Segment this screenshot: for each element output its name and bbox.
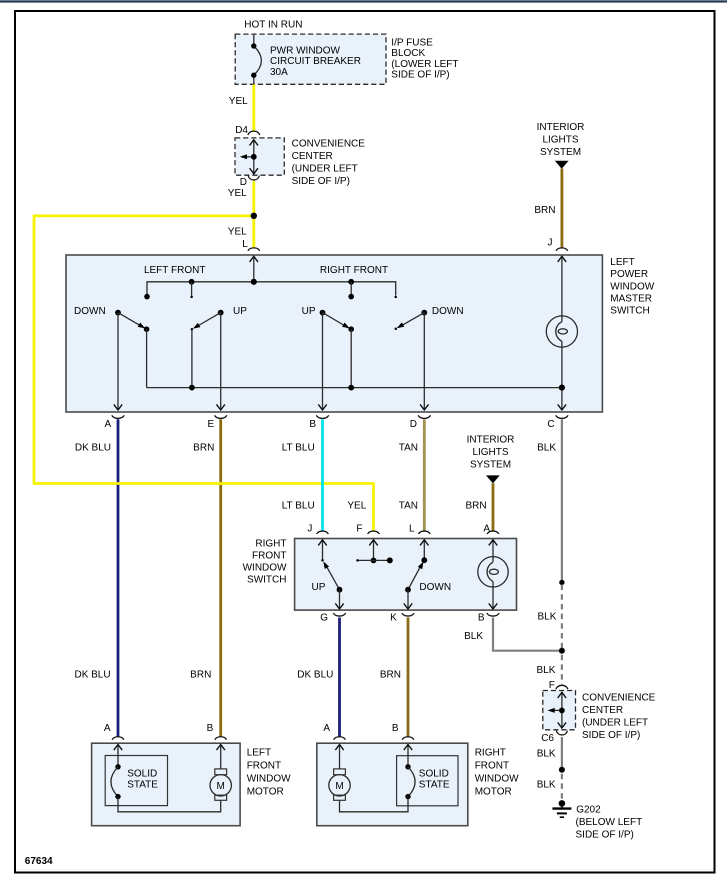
wire BLK dashed to ground: [561, 774, 563, 800]
node bus taps: [189, 279, 195, 285]
motor M left: [210, 745, 231, 801]
svg-text:BRN: BRN: [534, 205, 555, 216]
svg-text:LT BLU: LT BLU: [282, 501, 315, 512]
svg-text:CONVENIENCE: CONVENIENCE: [292, 139, 366, 150]
svg-text:(UNDER LEFT: (UNDER LEFT: [292, 164, 358, 175]
svg-text:M: M: [217, 781, 225, 792]
svg-text:C: C: [547, 419, 554, 430]
svg-text:E: E: [208, 419, 215, 430]
svg-text:A: A: [483, 523, 490, 534]
svg-text:K: K: [390, 612, 397, 623]
svg-text:B: B: [207, 723, 214, 734]
svg-text:L: L: [409, 523, 415, 534]
svg-text:SIDE OF I/P): SIDE OF I/P): [576, 830, 634, 841]
svg-text:SOLID: SOLID: [127, 768, 157, 779]
I/P fuse block box: [235, 34, 386, 84]
pin L entry arrow: [253, 256, 255, 282]
wire BLK dashed to F: [561, 655, 563, 685]
svg-text:30A: 30A: [270, 67, 288, 78]
svg-text:LEFT: LEFT: [610, 257, 634, 268]
wire BLK dashed upper: [561, 585, 563, 650]
off-page triangle interior lights: [555, 161, 569, 169]
contact fixed right up: [348, 294, 354, 300]
svg-text:B: B: [309, 419, 316, 430]
svg-text:LEFT FRONT: LEFT FRONT: [144, 265, 205, 276]
svg-text:WINDOW: WINDOW: [243, 563, 287, 574]
svg-text:I/P FUSE: I/P FUSE: [391, 38, 433, 49]
svg-text:DK BLU: DK BLU: [75, 442, 111, 453]
svg-text:MOTOR: MOTOR: [247, 787, 284, 798]
left power window master switch box: [66, 255, 602, 412]
svg-text:MASTER: MASTER: [610, 294, 652, 305]
svg-text:RIGHT: RIGHT: [255, 538, 286, 549]
wire TAN D to L: [423, 419, 426, 531]
solid state block right: [397, 756, 458, 806]
svg-text:G202: G202: [576, 804, 601, 815]
svg-text:D: D: [240, 177, 247, 188]
connector F: [556, 685, 568, 689]
connectors right front switch bottom pins: [333, 613, 345, 616]
off-page triangle interior lights 2: [486, 475, 500, 483]
switch right front DOWN: [395, 306, 464, 410]
svg-text:SWITCH: SWITCH: [247, 575, 286, 586]
svg-text:WINDOW: WINDOW: [610, 281, 654, 292]
top supply bus: [147, 282, 396, 296]
svg-text:TAN: TAN: [399, 442, 418, 453]
pin J entry arrow: [561, 256, 563, 322]
wire YEL loop to F of right front window switch: [34, 216, 374, 532]
svg-text:DK BLU: DK BLU: [74, 670, 110, 681]
connector L: [248, 248, 260, 251]
breaker left motor: [111, 745, 221, 812]
connector D: [248, 176, 259, 180]
svg-text:D: D: [410, 419, 417, 430]
svg-text:PWR WINDOW: PWR WINDOW: [270, 46, 341, 57]
svg-text:YEL: YEL: [228, 227, 247, 238]
svg-text:INTERIOR: INTERIOR: [537, 122, 585, 133]
svg-text:CENTER: CENTER: [582, 705, 623, 716]
svg-text:STATE: STATE: [127, 780, 158, 791]
svg-text:BRN: BRN: [465, 501, 486, 512]
svg-text:(BELOW LEFT: (BELOW LEFT: [576, 817, 643, 828]
wire YEL breaker to D4: [252, 85, 255, 132]
svg-text:BRN: BRN: [193, 442, 214, 453]
svg-text:CONVENIENCE: CONVENIENCE: [582, 692, 656, 703]
svg-text:SIDE OF I/P): SIDE OF I/P): [582, 730, 640, 741]
svg-text:SIDE OF I/P): SIDE OF I/P): [292, 176, 350, 187]
svg-text:A: A: [323, 723, 330, 734]
svg-text:SOLID: SOLID: [419, 768, 449, 779]
svg-text:DK BLU: DK BLU: [297, 670, 333, 681]
svg-text:LIGHTS: LIGHTS: [542, 135, 578, 146]
wire BLK C6 solid: [561, 737, 563, 768]
switch left front UP: [191, 306, 248, 410]
svg-text:C6: C6: [541, 733, 554, 744]
wire DK BLU A to left motor: [117, 419, 120, 737]
svg-text:D4: D4: [235, 125, 248, 136]
svg-text:F: F: [549, 680, 555, 691]
node splice BLK to ground chain: [559, 648, 565, 654]
right front window motor box: [317, 743, 468, 826]
svg-text:J: J: [548, 238, 553, 249]
lamp illumination master switch: [546, 316, 577, 410]
svg-text:HOT IN RUN: HOT IN RUN: [244, 20, 302, 31]
solid state block left: [105, 756, 167, 806]
svg-text:BLK: BLK: [464, 631, 483, 642]
svg-text:YEL: YEL: [229, 96, 248, 107]
convenience center 1 internal link: [240, 140, 258, 174]
svg-text:A: A: [105, 419, 112, 430]
svg-text:SYSTEM: SYSTEM: [540, 147, 581, 158]
svg-text:INTERIOR: INTERIOR: [467, 434, 515, 445]
svg-text:BRN: BRN: [380, 670, 401, 681]
breaker right motor: [340, 745, 416, 812]
convenience center box 2: [543, 691, 576, 730]
wire BRN E to left motor: [219, 419, 222, 737]
top window edge strip: [0, 0, 727, 1]
svg-text:A: A: [104, 723, 111, 734]
svg-text:DOWN: DOWN: [74, 306, 106, 317]
svg-text:LEFT: LEFT: [247, 748, 271, 759]
svg-text:L: L: [242, 239, 248, 250]
switch right front UP blade: [312, 540, 344, 609]
svg-text:UP: UP: [302, 306, 316, 317]
svg-text:BLK: BLK: [536, 665, 555, 676]
switch right front F tap: [356, 540, 393, 564]
svg-text:YEL: YEL: [228, 188, 247, 199]
svg-text:BLK: BLK: [537, 780, 556, 791]
svg-text:M: M: [335, 781, 343, 792]
contact fixed left up: [190, 296, 193, 299]
wire YEL D to L with tap: [252, 181, 255, 248]
wire DK BLU G to right motor: [338, 618, 341, 737]
svg-text:SYSTEM: SYSTEM: [470, 459, 511, 470]
wire BRN K to right motor: [407, 618, 410, 737]
wire BRN interior lights to A: [492, 483, 495, 531]
svg-text:FRONT: FRONT: [252, 551, 286, 562]
circuit breaker PWR WINDOW 30A: [251, 35, 361, 84]
svg-text:FRONT: FRONT: [247, 761, 281, 772]
svg-text:RIGHT: RIGHT: [475, 748, 506, 759]
svg-text:CIRCUIT BREAKER: CIRCUIT BREAKER: [270, 56, 361, 67]
wire BLK C solid upper: [561, 419, 563, 582]
svg-text:BLK: BLK: [537, 442, 556, 453]
svg-text:WINDOW: WINDOW: [247, 774, 291, 785]
svg-text:WINDOW: WINDOW: [475, 774, 519, 785]
svg-text:MOTOR: MOTOR: [475, 787, 512, 798]
switch right front UP: [302, 306, 354, 410]
connectors master switch bottom pins: [112, 415, 124, 418]
node splice BLK lower: [559, 767, 565, 773]
left front window motor box: [92, 743, 241, 826]
svg-text:FRONT: FRONT: [475, 761, 509, 772]
ground G202: [552, 800, 571, 817]
svg-text:(UNDER LEFT: (UNDER LEFT: [582, 717, 648, 728]
wire LT BLU B to J: [321, 419, 324, 531]
wire BLK B to splice: [493, 618, 561, 651]
svg-text:B: B: [392, 723, 399, 734]
svg-text:LT BLU: LT BLU: [282, 442, 315, 453]
svg-text:BRN: BRN: [190, 670, 211, 681]
motor M right: [329, 745, 350, 801]
svg-text:YEL: YEL: [347, 501, 366, 512]
svg-text:BLK: BLK: [537, 611, 556, 622]
svg-text:RIGHT FRONT: RIGHT FRONT: [320, 265, 388, 276]
svg-text:G: G: [320, 612, 328, 623]
svg-text:DOWN: DOWN: [419, 582, 451, 593]
node splice YEL: [251, 213, 257, 219]
svg-text:SIDE OF I/P): SIDE OF I/P): [391, 70, 449, 81]
contact fixed left down: [144, 294, 150, 300]
convenience center box 1: [235, 138, 284, 175]
right front window switch box: [295, 539, 517, 611]
node bus junctions: [189, 385, 195, 391]
svg-text:POWER: POWER: [610, 269, 648, 280]
svg-text:LIGHTS: LIGHTS: [472, 447, 508, 458]
svg-text:CENTER: CENTER: [292, 151, 333, 162]
svg-text:J: J: [307, 523, 312, 534]
svg-text:F: F: [356, 523, 362, 534]
lamp illumination right front switch: [478, 540, 508, 609]
svg-text:BLK: BLK: [537, 748, 556, 759]
connector C6: [556, 731, 567, 735]
switch left front DOWN: [74, 306, 149, 410]
svg-text:DOWN: DOWN: [432, 306, 464, 317]
svg-text:BLOCK: BLOCK: [391, 48, 425, 59]
svg-text:SWITCH: SWITCH: [610, 306, 649, 317]
contact fixed right down: [394, 296, 397, 299]
wire BRN interior lights to J: [561, 169, 564, 248]
connectors right front switch top pins: [317, 531, 329, 534]
svg-text:UP: UP: [233, 306, 247, 317]
svg-text:67634: 67634: [25, 856, 53, 867]
convenience center 2 internal link: [548, 692, 567, 728]
svg-text:B: B: [478, 612, 485, 623]
svg-text:(LOWER LEFT: (LOWER LEFT: [391, 59, 458, 70]
node splice BLK C column: [559, 580, 564, 585]
switch right front DOWN blade: [404, 540, 451, 609]
lower common bus: [147, 387, 562, 389]
svg-text:STATE: STATE: [419, 780, 450, 791]
svg-text:TAN: TAN: [399, 501, 418, 512]
connector D4: [248, 131, 260, 135]
svg-text:UP: UP: [312, 582, 326, 593]
connector J: [556, 248, 568, 251]
connectors motor pins: [112, 737, 124, 740]
